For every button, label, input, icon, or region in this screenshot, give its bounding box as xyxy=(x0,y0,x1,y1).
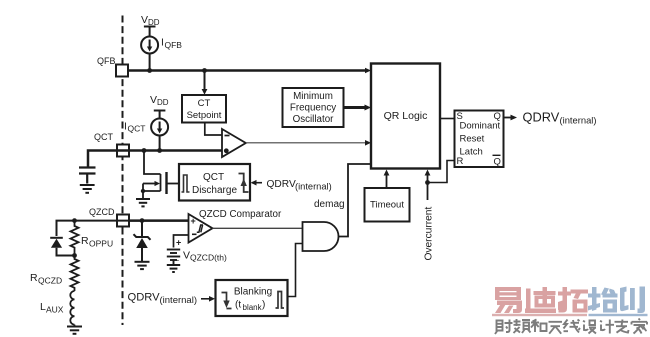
svg-text:Timeout: Timeout xyxy=(370,200,404,211)
wire: Timeout to QR Logic xyxy=(386,174,388,189)
ground (under LAUX) xyxy=(67,327,82,334)
svg-text:(internal): (internal) xyxy=(560,115,597,126)
svg-text:Discharge: Discharge xyxy=(192,185,237,196)
wire: QR Logic to latch S xyxy=(440,118,455,120)
ground (under battery) xyxy=(167,265,180,272)
logo: 培训 (blue) xyxy=(588,287,645,314)
node: comparator lower input xyxy=(224,148,229,153)
node: zener tap xyxy=(140,218,145,223)
wire down to CT Setpoint xyxy=(204,71,206,91)
svg-text:QFB: QFB xyxy=(165,40,183,50)
svg-text:R: R xyxy=(81,235,89,247)
svg-text:(internal): (internal) xyxy=(295,182,332,192)
wire: Blanking out to AND gate xyxy=(288,244,303,297)
wire: latch Q output QDRV xyxy=(504,117,513,119)
capacitor on QCT xyxy=(79,168,96,184)
svg-text:Blanking: Blanking xyxy=(234,287,272,298)
wire: overcurrent to latch R xyxy=(428,161,455,183)
hysteresis symbol xyxy=(197,225,203,232)
node: IQFB junction xyxy=(147,68,152,73)
svg-text:R: R xyxy=(30,272,38,284)
svg-text:QCT: QCT xyxy=(94,132,114,142)
diode D1 (to QZCD) xyxy=(50,237,63,239)
svg-text:blank: blank xyxy=(243,303,263,312)
pulse symbol (left, in QCT Discharge) xyxy=(182,175,190,192)
dashed IC boundary line xyxy=(122,16,124,326)
logo underline xyxy=(492,314,587,316)
wire: AND output demag up to QR Logic xyxy=(339,164,372,237)
logo: 易迪拓 (pink) xyxy=(495,287,588,313)
node: mosfet tap xyxy=(142,148,147,153)
svg-text:CT: CT xyxy=(198,98,211,109)
pulse symbol (right, in Blanking) xyxy=(276,292,285,309)
block QR Logic xyxy=(371,64,440,169)
svg-text:OPPU: OPPU xyxy=(89,239,113,249)
current source IQFB xyxy=(141,37,158,54)
svg-text:-: - xyxy=(177,256,180,265)
AND gate xyxy=(303,222,339,251)
svg-text:Reset: Reset xyxy=(460,134,485,145)
block Minimum Frequency Oscillator xyxy=(283,88,344,127)
wire: MFO to QR Logic xyxy=(344,106,367,109)
svg-text:Setpoint: Setpoint xyxy=(187,110,222,121)
svg-text:DD: DD xyxy=(157,98,169,107)
svg-text:QCT: QCT xyxy=(128,124,146,134)
resistor RQCZD xyxy=(71,256,79,292)
svg-text:QZCD: QZCD xyxy=(89,207,115,217)
svg-text:Q: Q xyxy=(494,157,501,168)
node: bottom of ROPPU xyxy=(72,253,77,258)
VDD rail (for IQCT) xyxy=(154,111,166,119)
svg-text:AUX: AUX xyxy=(46,305,64,315)
svg-text:Dominant: Dominant xyxy=(460,121,501,132)
transistor (QCT discharge switch) xyxy=(143,151,179,199)
node: ROPPU tap xyxy=(72,218,77,223)
ground (under capacitor) xyxy=(80,185,95,193)
inductor LAUX xyxy=(70,291,74,325)
svg-text:QDRV: QDRV xyxy=(523,110,560,125)
falling edge symbol (left, in Blanking) xyxy=(222,293,232,309)
svg-text:Overcurrent: Overcurrent xyxy=(424,207,435,261)
svg-text:I: I xyxy=(124,121,127,133)
svg-text:(t: (t xyxy=(235,300,241,311)
latch Dominant Reset Latch xyxy=(455,111,504,168)
svg-text:demag: demag xyxy=(314,199,345,210)
svg-text:R: R xyxy=(457,156,464,167)
svg-text:V: V xyxy=(183,250,190,262)
wire QCT rail xyxy=(88,151,222,167)
edge symbol (right, in QCT Discharge) xyxy=(239,174,249,193)
svg-text:Oscillator: Oscillator xyxy=(293,114,335,125)
svg-text:(internal): (internal) xyxy=(160,295,198,306)
wire: CT comparator output to QR Logic xyxy=(246,142,368,144)
svg-text:QCZD: QCZD xyxy=(38,276,62,286)
svg-text:): ) xyxy=(262,300,265,311)
svg-text:DD: DD xyxy=(148,18,160,27)
svg-text:V: V xyxy=(141,14,148,26)
node: IQCT junction xyxy=(157,148,162,153)
wire: CT Setpoint to comparator xyxy=(205,123,222,136)
current source IQCT xyxy=(151,119,168,136)
block CT Setpoint xyxy=(182,95,226,123)
svg-text:+: + xyxy=(176,238,181,248)
zener diode (on QZCD) xyxy=(141,221,143,237)
block Blanking xyxy=(216,280,288,316)
wire QZCD rail xyxy=(57,221,189,236)
VDD rail (top, for IQFB) xyxy=(144,27,156,37)
svg-text:QCT: QCT xyxy=(203,172,224,183)
wire QFB to QR Logic xyxy=(128,69,368,72)
svg-text:QDRV: QDRV xyxy=(128,292,161,304)
resistor ROPPU xyxy=(71,222,79,256)
svg-text:QR Logic: QR Logic xyxy=(384,110,428,122)
ground (under zener) xyxy=(135,262,150,269)
svg-text:Minimum: Minimum xyxy=(293,91,333,102)
op-amp CT comparator xyxy=(222,129,246,157)
wire: comparator output to AND gate xyxy=(213,227,303,229)
block QCT Discharge xyxy=(179,164,250,201)
svg-text:QFB: QFB xyxy=(97,56,116,66)
ground (under transistor) xyxy=(136,199,150,206)
svg-text:QDRV: QDRV xyxy=(267,179,296,190)
svg-text:Frequency: Frequency xyxy=(290,103,336,114)
node: CT setpoint tap xyxy=(202,68,207,73)
wire/net Overcurrent xyxy=(427,174,429,200)
svg-text:QZCD Comparator: QZCD Comparator xyxy=(199,209,282,220)
svg-text:+: + xyxy=(191,216,196,226)
svg-text:Latch: Latch xyxy=(460,147,483,158)
logo tagline 射频和天线设计专家 (gray) xyxy=(495,319,647,335)
svg-text:QZCD(th): QZCD(th) xyxy=(190,253,227,263)
svg-text:V: V xyxy=(150,94,157,106)
svg-text:I: I xyxy=(161,37,164,49)
block Timeout xyxy=(365,188,410,222)
QDRV(internal) into QCT Discharge xyxy=(252,182,262,184)
wire: comparator minus input to VQZCD(th) xyxy=(174,235,189,248)
